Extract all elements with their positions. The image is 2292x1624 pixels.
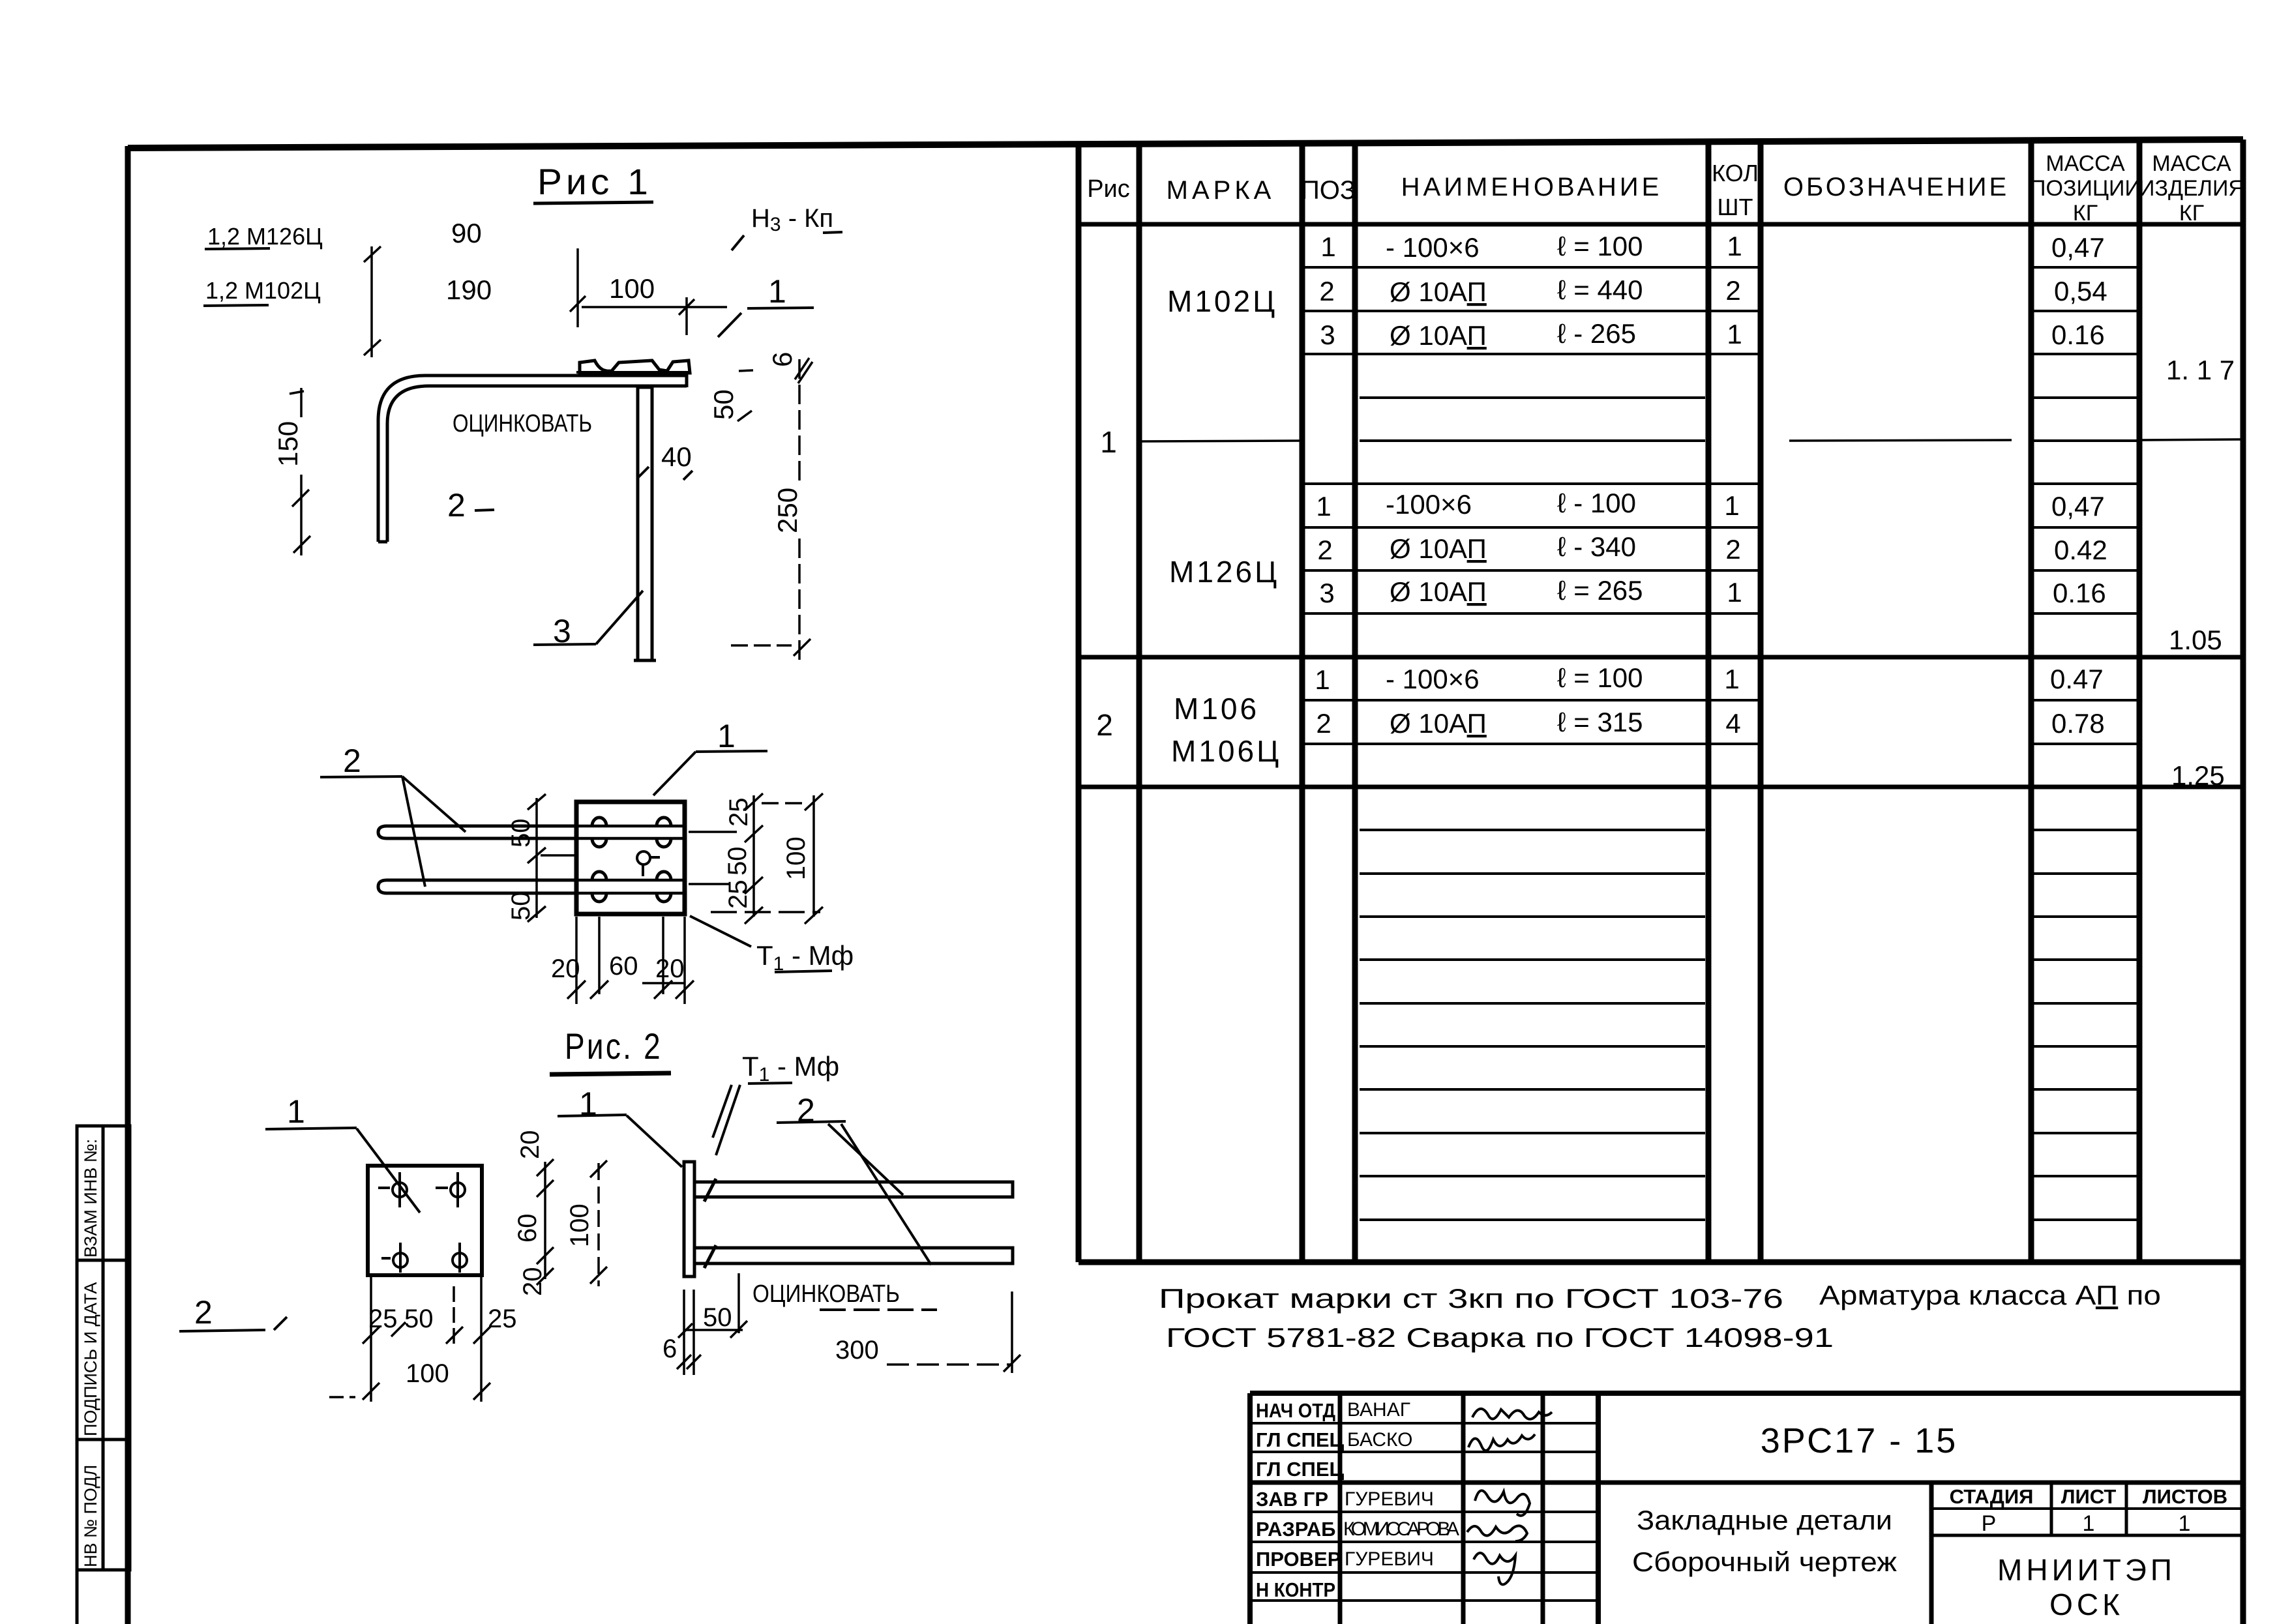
svg-text:0,54: 0,54 — [2054, 276, 2107, 306]
svg-text:КГ: КГ — [2073, 201, 2098, 226]
svg-text:ПОДПИСЬ И ДАТА: ПОДПИСЬ И ДАТА — [81, 1282, 100, 1436]
svg-text:1.25: 1.25 — [2171, 760, 2225, 791]
dimension 250 (fig1 right) — [731, 359, 811, 662]
svg-text:МАРКА: МАРКА — [1167, 176, 1275, 205]
svg-text:50: 50 — [404, 1305, 434, 1333]
fig2 side: dimension 300 — [835, 1292, 1020, 1373]
fig2 front: leader label 2 — [179, 1294, 287, 1331]
title block frame — [1250, 1393, 2244, 1624]
Н3-Кп profile wavy piece — [580, 361, 690, 373]
fig2 front: bottom dimension 25 50 25 — [363, 1277, 517, 1402]
svg-text:2: 2 — [447, 487, 466, 524]
svg-text:ЛИСТОВ: ЛИСТОВ — [2143, 1485, 2227, 1508]
svg-text:0.78: 0.78 — [2051, 708, 2105, 739]
svg-text:ОБОЗНАЧЕНИЕ: ОБОЗНАЧЕНИЕ — [1783, 173, 2009, 201]
dimension 100 of plate — [570, 248, 727, 335]
stage box texts — [1950, 1485, 2228, 1508]
svg-text:М102Ц: М102Ц — [1167, 284, 1277, 318]
svg-text:1: 1 — [2083, 1511, 2095, 1536]
svg-text:ℓ = 100: ℓ = 100 — [1557, 231, 1643, 261]
svg-text:ИЗДЕЛИЯ: ИЗДЕЛИЯ — [2139, 176, 2244, 201]
svg-text:3РС17 - 15: 3РС17 - 15 — [1761, 1421, 1958, 1460]
fig2 side: text ОЦИНКОВАТЬ — [752, 1280, 937, 1310]
dimension 150 — [273, 388, 310, 555]
svg-text:ГУРЕВИЧ: ГУРЕВИЧ — [1345, 1548, 1434, 1570]
fig2 side: dimension 6 — [662, 1290, 701, 1375]
svg-text:Т1 - Мф: Т1 - Мф — [742, 1051, 839, 1085]
fig2 plan: center hole — [637, 851, 660, 876]
svg-text:БАСКО: БАСКО — [1347, 1429, 1413, 1451]
svg-text:Ø 10АП: Ø 10АП — [1390, 533, 1487, 564]
РИС column values — [1096, 425, 1117, 742]
svg-text:Ø 10АП: Ø 10АП — [1390, 576, 1487, 607]
МАССА ПОЗИЦИИ column values — [2050, 232, 2107, 739]
svg-text:100: 100 — [406, 1359, 449, 1388]
svg-text:Н КОНТР: Н КОНТР — [1256, 1578, 1335, 1601]
svg-text:0.47: 0.47 — [2050, 664, 2104, 694]
margin strip box ВЗАМ ИНВ № — [77, 1126, 130, 1260]
row lines ПОЗ column — [1302, 267, 1355, 744]
specification table grid — [1079, 142, 2244, 1262]
svg-text:ШТ: ШТ — [1718, 194, 1753, 220]
svg-text:25: 25 — [368, 1305, 398, 1333]
dimension 50 (fig1 right) — [708, 370, 753, 421]
signature scribbles — [1467, 1409, 1552, 1585]
svg-text:1: 1 — [717, 718, 736, 754]
fig2 side: anchor plate edge — [684, 1162, 694, 1277]
svg-text:2: 2 — [194, 1294, 213, 1331]
svg-text:ℓ = 265: ℓ = 265 — [1557, 575, 1643, 606]
svg-text:6: 6 — [662, 1335, 677, 1363]
svg-text:ПОЗ: ПОЗ — [1301, 176, 1356, 205]
table header texts — [1087, 151, 2244, 226]
fig2 front: hole symbols — [378, 1172, 467, 1273]
svg-text:ℓ = 440: ℓ = 440 — [1557, 274, 1643, 305]
svg-text:Ø 10АП: Ø 10АП — [1390, 276, 1487, 307]
КОЛ ШТ column values — [1724, 231, 1742, 739]
svg-text:ОЦИНКОВАТЬ: ОЦИНКОВАТЬ — [453, 410, 592, 437]
fig2 plan: upper anchor bar — [378, 826, 685, 838]
fig2 plan: leader label 2 (bars) — [320, 743, 466, 887]
fig2 side: leader label 2 — [777, 1092, 931, 1265]
svg-text:РАЗРАБ: РАЗРАБ — [1256, 1518, 1335, 1541]
svg-text:ПОЗИЦИИ: ПОЗИЦИИ — [2030, 176, 2141, 201]
svg-text:60: 60 — [609, 952, 638, 981]
svg-text:3: 3 — [1320, 319, 1335, 350]
row lines НАИМЕНОВАНИЕ column — [1355, 267, 1708, 1220]
svg-text:М126Ц: М126Ц — [1169, 555, 1279, 589]
svg-text:300: 300 — [835, 1336, 879, 1365]
leader label 2 (bar) — [447, 487, 494, 524]
svg-text:Арматура класса АП по: Арматура класса АП по — [1819, 1280, 2161, 1310]
НАИМЕНОВАНИЕ column values — [1386, 231, 1643, 739]
svg-text:ОСК: ОСК — [2049, 1587, 2124, 1621]
svg-text:Закладные детали: Закладные детали — [1637, 1505, 1892, 1535]
МАССА ИЗДЕЛИЯ column values — [2166, 355, 2235, 791]
svg-text:0,47: 0,47 — [2051, 232, 2105, 263]
fig2 front: right dimension 100 — [565, 1160, 607, 1286]
svg-text:1: 1 — [1727, 319, 1742, 349]
svg-text:2: 2 — [1319, 276, 1334, 306]
svg-text:100: 100 — [609, 273, 655, 304]
svg-text:100: 100 — [565, 1203, 594, 1247]
dimension 6 (plate thickness fig1) — [767, 352, 812, 383]
svg-text:1: 1 — [1320, 231, 1335, 262]
figure 1 title Рис 1 — [533, 161, 653, 203]
svg-text:20: 20 — [655, 954, 685, 983]
svg-text:0.16: 0.16 — [2051, 319, 2105, 350]
svg-text:1: 1 — [1316, 491, 1331, 522]
svg-text:20: 20 — [518, 1267, 547, 1297]
fig2 plan: bottom dimension 20 60 20 — [551, 917, 694, 1004]
svg-text:ВАНАГ: ВАНАГ — [1347, 1399, 1410, 1421]
svg-text:ГУРЕВИЧ: ГУРЕВИЧ — [1345, 1488, 1434, 1510]
stage box — [1931, 1483, 2244, 1624]
svg-text:ℓ = 100: ℓ = 100 — [1557, 662, 1643, 693]
svg-text:1: 1 — [1727, 231, 1742, 261]
svg-text:Н3 - Кп: Н3 - Кп — [751, 204, 833, 235]
svg-text:2: 2 — [343, 743, 361, 779]
svg-text:ℓ - 265: ℓ - 265 — [1557, 318, 1636, 349]
svg-text:0,47: 0,47 — [2051, 491, 2105, 522]
svg-text:150: 150 — [273, 421, 303, 467]
svg-text:Т1 - Мф: Т1 - Мф — [756, 940, 854, 975]
svg-text:1: 1 — [768, 273, 786, 310]
row lines МАССА ПОЗИЦИИ column — [2031, 267, 2139, 1220]
svg-text:ОЦИНКОВАТЬ: ОЦИНКОВАТЬ — [752, 1280, 900, 1308]
fig2 front: right dimension 20 60 20 — [513, 1130, 554, 1297]
svg-text:250: 250 — [772, 488, 803, 533]
svg-text:Сборочный чертеж: Сборочный чертеж — [1632, 1546, 1897, 1577]
svg-text:М106: М106 — [1174, 692, 1259, 726]
svg-text:1. 1 7: 1. 1 7 — [2166, 355, 2235, 385]
svg-text:40: 40 — [661, 441, 692, 472]
fig2 plan: right dimension 25 50 25 — [689, 793, 763, 924]
svg-text:ВЗАМ ИНВ №:: ВЗАМ ИНВ №: — [81, 1139, 100, 1258]
svg-text:НВ № ПОДЛ: НВ № ПОДЛ — [81, 1465, 100, 1567]
svg-text:60: 60 — [513, 1214, 542, 1243]
svg-text:НАИМЕНОВАНИЕ: НАИМЕНОВАНИЕ — [1401, 173, 1663, 201]
section divider М102Ц/М126Ц — [1142, 439, 2241, 441]
svg-text:50: 50 — [723, 847, 752, 876]
part 3 anchor stem — [634, 387, 656, 660]
fig2 plan: leader label 1 (plate) — [653, 718, 767, 795]
svg-text:ℓ - 100: ℓ - 100 — [1557, 488, 1636, 518]
svg-text:2: 2 — [1316, 708, 1331, 739]
svg-text:1: 1 — [2179, 1511, 2191, 1536]
margin strip box ПОДПИСЬ И ДАТА — [77, 1260, 130, 1439]
svg-text:1,2 М102Ц: 1,2 М102Ц — [205, 277, 321, 304]
fig2 side: leader label 1 — [558, 1085, 682, 1167]
svg-text:Рис 1: Рис 1 — [537, 161, 652, 202]
svg-text:3: 3 — [1319, 578, 1334, 608]
svg-text:1: 1 — [1100, 425, 1117, 459]
fig2 plan: right dimension 100 — [711, 793, 823, 924]
svg-text:НАЧ ОТД: НАЧ ОТД — [1256, 1399, 1335, 1422]
weld mark label 1,2 М102Ц — [203, 277, 321, 306]
svg-text:ЗАВ ГР: ЗАВ ГР — [1256, 1488, 1328, 1511]
svg-text:КОЛ: КОЛ — [1712, 160, 1759, 186]
svg-text:1: 1 — [1724, 490, 1739, 521]
margin strip box ИНВ № ПОДЛ — [77, 1439, 130, 1624]
svg-text:50: 50 — [507, 892, 535, 921]
fig2 plan: left dimension 50 50 — [507, 794, 576, 922]
svg-text:0.16: 0.16 — [2053, 578, 2106, 608]
svg-text:190: 190 — [446, 274, 492, 305]
svg-text:2: 2 — [1317, 535, 1332, 565]
svg-text:- 100×6: - 100×6 — [1386, 232, 1480, 263]
fig2 front: leader label 1 — [265, 1093, 420, 1213]
fig2 plan: lower anchor bar — [378, 880, 685, 893]
figure 2 title Рис. 2 — [550, 1026, 671, 1074]
fig2 plan: anchor plate — [576, 802, 685, 914]
svg-text:50: 50 — [703, 1303, 732, 1332]
МАРКА column values — [1167, 284, 1281, 768]
title block role labels — [1256, 1399, 1345, 1601]
svg-text:КГ: КГ — [2179, 201, 2204, 226]
svg-text:2: 2 — [1725, 275, 1740, 306]
svg-text:25: 25 — [724, 798, 753, 827]
svg-text:6: 6 — [767, 352, 797, 367]
svg-text:ПРОВЕР: ПРОВЕР — [1256, 1548, 1341, 1571]
fig2 side: dimension 50 — [678, 1273, 747, 1338]
svg-text:4: 4 — [1725, 708, 1740, 739]
fig2 front: bottom dimension 100 — [329, 1359, 490, 1400]
svg-text:Рис. 2: Рис. 2 — [565, 1026, 662, 1067]
dimension 40 — [637, 441, 692, 480]
ПОЗ column values — [1315, 231, 1335, 739]
svg-text:2: 2 — [1725, 534, 1740, 565]
svg-text:ℓ - 340: ℓ - 340 — [1557, 531, 1636, 562]
svg-text:СТАДИЯ: СТАДИЯ — [1950, 1485, 2034, 1508]
svg-text:0.42: 0.42 — [2054, 535, 2107, 565]
svg-text:Ø 10АП: Ø 10АП — [1390, 320, 1487, 351]
svg-text:50: 50 — [708, 389, 739, 420]
svg-text:1: 1 — [1724, 664, 1739, 694]
svg-text:ГЛ СПЕЦ: ГЛ СПЕЦ — [1256, 1428, 1345, 1451]
svg-text:1: 1 — [1727, 577, 1742, 608]
fig2 side: label Т1-Мф — [713, 1051, 839, 1155]
leader label 3 (stem) — [533, 591, 643, 649]
leader label 1 (plate) — [718, 273, 814, 337]
svg-text:ГОСТ 5781-82 Сварка по ГОС: ГОСТ 5781-82 Сварка по ГОСТ 14098-91 — [1166, 1322, 1834, 1353]
svg-text:Рис: Рис — [1087, 175, 1130, 203]
fig2 plan: label Т1-Мф — [690, 916, 854, 975]
fig2 front: anchor plate face — [368, 1166, 482, 1275]
svg-text:ЛИСТ: ЛИСТ — [2061, 1485, 2117, 1508]
svg-text:- 100×6: - 100×6 — [1386, 664, 1480, 694]
fig2 side: lower bar — [694, 1245, 1013, 1268]
svg-text:МАССА: МАССА — [2152, 151, 2231, 176]
svg-text:1,2 М126Ц: 1,2 М126Ц — [207, 223, 323, 250]
title block names — [1343, 1399, 1459, 1570]
row lines КОЛ column — [1708, 267, 1761, 744]
part 1 plate edge view — [576, 371, 689, 374]
fig2 side: upper bar — [694, 1179, 1013, 1202]
svg-text:1.05: 1.05 — [2169, 625, 2222, 655]
svg-text:1: 1 — [287, 1093, 305, 1130]
svg-text:ГЛ СПЕЦ: ГЛ СПЕЦ — [1256, 1458, 1345, 1481]
svg-text:-100×6: -100×6 — [1386, 489, 1472, 520]
svg-text:20: 20 — [516, 1130, 544, 1160]
svg-text:50: 50 — [507, 819, 535, 848]
svg-text:100: 100 — [782, 836, 811, 880]
svg-text:М106Ц: М106Ц — [1171, 734, 1281, 768]
svg-text:Ø 10АП: Ø 10АП — [1390, 708, 1487, 739]
svg-text:МНИИТЭП: МНИИТЭП — [1997, 1553, 2176, 1587]
svg-text:Р: Р — [1982, 1511, 1997, 1536]
weld mark label 1,2 М126Ц — [205, 223, 323, 250]
svg-text:2: 2 — [1096, 708, 1113, 742]
label Н3-Кп profiled deck — [732, 204, 842, 250]
svg-text:КОМИССАРОВА: КОМИССАРОВА — [1343, 1518, 1459, 1540]
fig2 plan: plug weld arcs — [592, 818, 671, 902]
svg-text:90: 90 — [451, 218, 482, 248]
part 2 bent anchor bar — [378, 374, 687, 542]
dimension arrow between mark labels — [364, 246, 381, 357]
svg-text:25: 25 — [488, 1305, 517, 1333]
svg-text:МАССА: МАССА — [2046, 151, 2125, 176]
svg-text:1: 1 — [1315, 664, 1330, 695]
svg-text:Прокат марки ст 3кп по ГОС: Прокат марки ст 3кп по ГОСТ 103-76 — [1159, 1283, 1783, 1314]
svg-text:ℓ = 315: ℓ = 315 — [1557, 707, 1643, 737]
